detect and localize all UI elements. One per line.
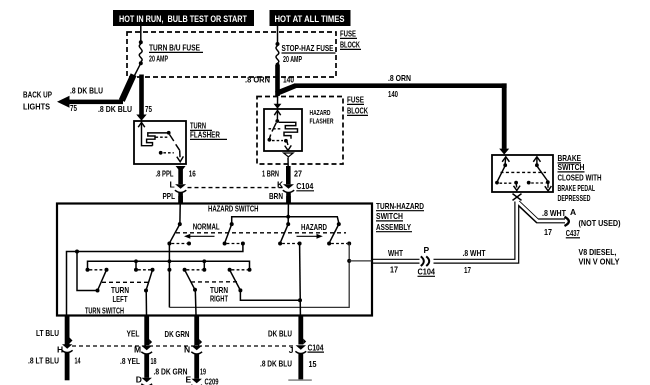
svg-text:SWITCH: SWITCH bbox=[558, 162, 585, 172]
svg-text:WHT: WHT bbox=[388, 248, 404, 258]
svg-text:C437: C437 bbox=[566, 228, 580, 238]
hazard switch wiring top bbox=[180, 205, 339, 225]
fuse block label bbox=[340, 29, 361, 50]
svg-text:TURN SWITCH: TURN SWITCH bbox=[85, 305, 124, 315]
svg-text:ASSEMBLY: ASSEMBLY bbox=[376, 222, 411, 232]
svg-text:75: 75 bbox=[70, 103, 77, 113]
label DK GRN N 19 E C209 bbox=[154, 329, 219, 385]
connector below brake switch bbox=[513, 194, 522, 201]
svg-text:C104: C104 bbox=[308, 342, 324, 352]
svg-text:.8 LT BLU: .8 LT BLU bbox=[28, 356, 59, 366]
svg-text:DEPRESSED: DEPRESSED bbox=[558, 193, 591, 203]
svg-text:C209: C209 bbox=[205, 376, 219, 385]
svg-text:TURN B/U FUSE: TURN B/U FUSE bbox=[149, 43, 200, 53]
svg-text:BLOCK: BLOCK bbox=[347, 106, 369, 116]
hazard flasher label bbox=[310, 110, 334, 126]
wire line B bus bbox=[88, 259, 250, 269]
svg-text:E: E bbox=[186, 374, 192, 384]
svg-text:HOT IN RUN, BULB TEST OR STAR: HOT IN RUN, BULB TEST OR START bbox=[119, 14, 247, 24]
svg-text:(NOT USED): (NOT USED) bbox=[579, 218, 621, 228]
connector C104 dashed link L-K bbox=[188, 187, 284, 189]
svg-text:J: J bbox=[289, 345, 294, 355]
wire hazard loop to WHT bbox=[169, 244, 371, 308]
turn flasher internals bbox=[138, 122, 183, 161]
label DK BLU J C104 15 bbox=[260, 329, 324, 370]
wire bar1 to turn b/u fuse bbox=[140, 26, 142, 42]
svg-text:M: M bbox=[134, 344, 141, 354]
svg-text:75: 75 bbox=[145, 104, 152, 114]
wire line A to LT BLU bbox=[67, 244, 243, 315]
svg-text:19: 19 bbox=[200, 366, 206, 376]
svg-text:STOP-HAZ FUSE: STOP-HAZ FUSE bbox=[282, 43, 334, 53]
svg-text:A: A bbox=[570, 207, 576, 217]
svg-text:RIGHT: RIGHT bbox=[210, 293, 229, 303]
hazard switch contacts bbox=[167, 242, 351, 246]
svg-text:.8 ORN: .8 ORN bbox=[245, 75, 270, 85]
turn switch contacts row bbox=[86, 268, 252, 272]
svg-text:1 BRN: 1 BRN bbox=[262, 169, 279, 179]
svg-text:N: N bbox=[184, 344, 190, 354]
wire 1 BRN hazard flasher to switch bbox=[283, 153, 294, 204]
turn left blade and wire bbox=[77, 252, 107, 293]
svg-text:LT BLU: LT BLU bbox=[36, 328, 59, 338]
turn flasher label bbox=[190, 121, 227, 140]
hazard fuse block dashed box bbox=[257, 97, 343, 165]
hazard switch pivots and blades bbox=[169, 222, 340, 243]
svg-text:VIN V ONLY: VIN V ONLY bbox=[579, 257, 620, 267]
svg-text:V8 DIESEL,: V8 DIESEL, bbox=[579, 247, 617, 257]
hazard flasher internals bbox=[268, 110, 298, 150]
wire .8 ORN 140 to brake switch bbox=[294, 83, 509, 154]
svg-text:.8 ORN: .8 ORN bbox=[388, 73, 411, 83]
svg-text:DK GRN: DK GRN bbox=[165, 329, 190, 339]
svg-text:.8 WHT: .8 WHT bbox=[463, 248, 487, 258]
svg-text:.8 DK GRN: .8 DK GRN bbox=[154, 366, 188, 376]
svg-text:HOT AT ALL TIMES: HOT AT ALL TIMES bbox=[275, 14, 345, 24]
svg-text:TURN-HAZARD: TURN-HAZARD bbox=[376, 201, 424, 211]
wire .8 WHT vertical+horizontal (hollow) bbox=[373, 200, 565, 261]
svg-text:L: L bbox=[170, 180, 175, 190]
svg-text:HAZARD SWITCH: HAZARD SWITCH bbox=[208, 204, 259, 214]
turn switch mechanical dashed links bbox=[102, 281, 238, 284]
svg-text:D: D bbox=[136, 374, 142, 384]
label YEL M 18 D bbox=[120, 329, 157, 385]
label turn left / right / switch bbox=[85, 285, 229, 315]
power bus bar HOT IN RUN bbox=[113, 10, 254, 26]
wire YEL bottom bbox=[141, 316, 152, 385]
fuse TURN B/U FUSE 20 AMP bbox=[139, 40, 203, 65]
svg-text:HAZARD: HAZARD bbox=[301, 222, 327, 232]
svg-text:P: P bbox=[424, 245, 430, 255]
svg-text:K: K bbox=[277, 180, 284, 190]
label back up lights bbox=[23, 86, 152, 115]
label hazard switch bbox=[208, 204, 259, 214]
svg-text:FUSE: FUSE bbox=[340, 29, 356, 39]
svg-text:FLASHER: FLASHER bbox=[190, 130, 220, 140]
svg-text:BRN: BRN bbox=[269, 191, 283, 201]
label not used branch bbox=[542, 207, 621, 238]
svg-text:20 AMP: 20 AMP bbox=[283, 54, 302, 64]
svg-text:20 AMP: 20 AMP bbox=[149, 54, 168, 64]
label .8 PPL 16 L PPL bbox=[156, 169, 196, 202]
wire BRN stub into box bbox=[286, 196, 291, 205]
svg-text:.8 PPL: .8 PPL bbox=[156, 169, 174, 179]
wire bar2 to stop-haz fuse bbox=[277, 26, 279, 44]
svg-text:.8 YEL: .8 YEL bbox=[120, 356, 140, 366]
yel blade and wire bbox=[144, 270, 153, 315]
svg-text:15: 15 bbox=[309, 359, 317, 369]
svg-text:140: 140 bbox=[283, 75, 294, 85]
label .8 ORN 140 bbox=[245, 75, 294, 85]
svg-text:.8 DK BLU: .8 DK BLU bbox=[98, 104, 132, 114]
brake switch label bbox=[558, 153, 602, 203]
wire DK BLU fuse to turn flasher bbox=[135, 63, 147, 121]
label 1 BRN 27 K C104 BRN bbox=[262, 169, 314, 202]
fuse STOP-HAZ FUSE 20 AMP bbox=[276, 42, 336, 67]
wire PPL stub into box bbox=[178, 196, 183, 205]
svg-text:27: 27 bbox=[294, 169, 302, 179]
svg-text:14: 14 bbox=[75, 356, 81, 366]
dk blu wire vertical bbox=[299, 244, 302, 315]
svg-text:17: 17 bbox=[390, 265, 398, 275]
svg-text:YEL: YEL bbox=[127, 329, 140, 339]
label WHT 17 P C104 .8 WHT 17 bbox=[388, 245, 486, 277]
svg-text:LIGHTS: LIGHTS bbox=[23, 102, 50, 112]
fuse block dashed box bbox=[127, 32, 336, 77]
svg-text:DK BLU: DK BLU bbox=[268, 329, 292, 339]
svg-text:LEFT: LEFT bbox=[113, 294, 129, 304]
connector C104 P on WHT wire bbox=[420, 256, 434, 267]
hazard switch mechanical dashed link bbox=[176, 232, 346, 234]
power bus bar HOT AT ALL TIMES bbox=[270, 10, 351, 26]
svg-text:HAZARD: HAZARD bbox=[310, 110, 331, 117]
svg-text:.8 DK BLU: .8 DK BLU bbox=[70, 86, 103, 96]
svg-text:140: 140 bbox=[388, 89, 398, 99]
wire .8 PPL turn flasher to switch bbox=[175, 166, 186, 204]
brake switch box bbox=[492, 155, 553, 192]
svg-text:BACK UP: BACK UP bbox=[23, 90, 52, 100]
svg-text:C104: C104 bbox=[296, 181, 313, 191]
hazard position arrow bbox=[297, 234, 323, 239]
svg-text:16: 16 bbox=[189, 169, 196, 179]
svg-text:PPL: PPL bbox=[163, 191, 176, 201]
svg-text:H: H bbox=[57, 344, 63, 354]
svg-text:.8 WHT: .8 WHT bbox=[542, 208, 567, 218]
svg-text:FUSE: FUSE bbox=[347, 95, 364, 105]
svg-text:17: 17 bbox=[464, 265, 471, 275]
hazard fuse block label bbox=[347, 95, 369, 116]
turn flasher box bbox=[134, 121, 186, 164]
wire hazard feed vertical bbox=[167, 244, 171, 308]
svg-text:18: 18 bbox=[151, 356, 157, 366]
connector C104 dashed line bottom bbox=[72, 345, 296, 347]
label .8 ORN 140 horizontal bbox=[388, 73, 411, 99]
dk grn blade and wire bbox=[185, 270, 197, 315]
svg-text:CLOSED WITH: CLOSED WITH bbox=[558, 173, 602, 183]
brake switch internals bbox=[495, 157, 551, 191]
turn-hazard switch assembly box bbox=[57, 204, 372, 316]
svg-text:SWITCH: SWITCH bbox=[376, 211, 403, 221]
wire .8 DK BLU to back up lights bbox=[57, 75, 134, 108]
label LT BLU H 14 bbox=[28, 328, 81, 366]
svg-text:BRAKE PEDAL: BRAKE PEDAL bbox=[558, 183, 596, 193]
hazard flasher box bbox=[264, 109, 302, 151]
normal position arrow bbox=[184, 234, 215, 239]
wire DK GRN bottom bbox=[191, 316, 202, 385]
svg-text:NORMAL: NORMAL bbox=[193, 222, 220, 232]
svg-text:17: 17 bbox=[544, 227, 552, 237]
label V8 diesel bbox=[579, 247, 620, 267]
wire .8 ORN fuse to junction bbox=[275, 65, 296, 97]
svg-text:FLASHER: FLASHER bbox=[310, 119, 334, 126]
turn-hazard switch assembly label bbox=[376, 201, 424, 232]
wire .8 WHT arrow to not used (hollow) bbox=[565, 217, 569, 226]
wire DK BLU bottom bbox=[288, 316, 312, 381]
turn right blade and wire bbox=[230, 270, 302, 303]
wire into hazard flasher bbox=[274, 96, 282, 109]
svg-text:BLOCK: BLOCK bbox=[340, 40, 361, 50]
wire LT BLU bottom bbox=[62, 316, 73, 381]
svg-text:C104: C104 bbox=[418, 267, 436, 277]
svg-text:.8 DK BLU: .8 DK BLU bbox=[260, 359, 292, 369]
label normal / hazard bbox=[193, 222, 327, 233]
